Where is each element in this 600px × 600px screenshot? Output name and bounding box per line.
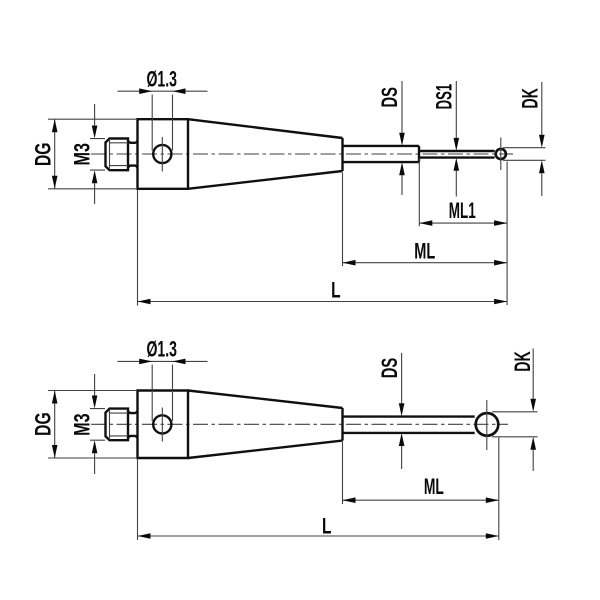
thread chamfer line top: [109, 139, 111, 170]
dimension L bottom line and arrows: [138, 535, 499, 537]
ball vertical centerline top: [500, 138, 502, 171]
svg-text:ML1: ML1: [449, 198, 476, 223]
svg-text:ML: ML: [414, 239, 435, 264]
svg-text:ML: ML: [424, 474, 444, 499]
dimension Ø1.3 bottom extension lines: [152, 365, 172, 421]
thread minor diameter lines bottom: [110, 413, 128, 436]
thread stud M3 outline bottom: [106, 409, 129, 441]
dimension L top extension line: [137, 190, 139, 306]
svg-text:DK: DK: [510, 351, 535, 372]
dimension Ø1.3 bottom arrows: [139, 359, 152, 365]
dimension DK bottom extension lines: [492, 412, 538, 437]
dimension DG bottom extension lines: [48, 391, 137, 459]
dimension M3 top extension lines: [90, 139, 105, 171]
dimension Ø1.3 top line: [118, 90, 208, 92]
dimension DK top line and arrows: [541, 82, 543, 196]
stem DS section top: [343, 146, 420, 162]
thread chamfer line bottom: [109, 409, 111, 440]
taper cone top: [188, 119, 343, 189]
ball tip bottom: [476, 413, 499, 436]
neck relief bottom: [128, 411, 138, 438]
svg-text:M3: M3: [69, 413, 94, 436]
stem DS1 section top: [419, 151, 495, 158]
ball tip top: [496, 149, 506, 159]
dimension L bottom extension line: [137, 460, 139, 541]
dimension L top line and arrows: [138, 301, 508, 303]
dimension Ø1.3 top arrows: [139, 88, 152, 94]
hole vertical centerline bottom: [161, 408, 163, 442]
dimension DS top line and arrows: [401, 81, 403, 195]
ball vertical centerline bottom: [486, 400, 488, 450]
dimension Ø1.3 bottom line: [118, 360, 208, 362]
dimension ML1 extension lines: [419, 159, 507, 306]
dimension M3 bottom line and arrows: [94, 374, 96, 474]
svg-text:L: L: [322, 514, 332, 539]
cross hole top: [153, 145, 171, 163]
holder body bottom: [138, 391, 189, 459]
thread minor diameter lines top: [110, 143, 128, 166]
dimension DK top extension lines: [503, 148, 546, 161]
dimension ML top extension line: [342, 173, 344, 267]
svg-text:DS1: DS1: [432, 84, 457, 110]
svg-text:Ø1.3: Ø1.3: [146, 337, 177, 362]
dimension DG top arrows: [52, 119, 58, 132]
holder body top: [138, 119, 189, 189]
svg-text:L: L: [331, 277, 341, 302]
svg-text:DS: DS: [377, 87, 402, 108]
dimension M3 top line and arrows: [94, 104, 96, 204]
dimension DS bottom line and arrows: [401, 353, 403, 469]
svg-text:Ø1.3: Ø1.3: [146, 67, 177, 92]
cross hole bottom: [153, 415, 171, 433]
dimension ML bottom extension lines: [343, 438, 499, 541]
dimension DG top line: [54, 119, 56, 189]
svg-text:DS: DS: [377, 358, 402, 379]
stem DS section bottom: [343, 417, 475, 433]
svg-text:DG: DG: [30, 412, 55, 436]
dimension DG bottom arrows: [52, 391, 58, 404]
centerline top stylus axis: [91, 153, 513, 155]
dimension DG top extension lines: [48, 119, 137, 189]
dimension ML top line and arrows: [343, 262, 508, 264]
hole vertical centerline top: [161, 137, 163, 172]
dimension M3 bottom extension lines: [90, 409, 105, 441]
dimension ML bottom line and arrows: [343, 499, 499, 501]
svg-text:M3: M3: [69, 143, 94, 166]
dimension DK bottom line and arrows: [532, 349, 534, 472]
taper cone bottom: [188, 391, 343, 459]
svg-text:DG: DG: [30, 143, 55, 167]
thread stud M3 outline top: [106, 139, 129, 171]
neck relief top: [128, 141, 138, 168]
dimension DG bottom line: [54, 391, 56, 459]
centerline bottom stylus axis: [91, 423, 508, 425]
dimension DS1 top line and arrows: [455, 81, 457, 197]
dimension ML1 line and arrows: [419, 222, 507, 224]
svg-text:DK: DK: [518, 88, 543, 109]
dimension Ø1.3 top extension lines: [152, 95, 172, 151]
